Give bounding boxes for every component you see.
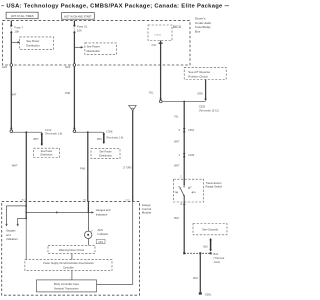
svg-text:See Power: See Power xyxy=(26,39,39,43)
label B41 thermal joint xyxy=(214,252,225,264)
wire from C505 down to TRS xyxy=(183,102,185,179)
svg-text:WHT: WHT xyxy=(33,138,39,141)
svg-text:C551: C551 xyxy=(188,128,195,132)
AFS indicator bulb xyxy=(85,230,93,238)
svg-text:See Grounds: See Grounds xyxy=(202,228,218,232)
wire WHT from E33 down xyxy=(10,67,12,129)
svg-text:Distribution: Distribution xyxy=(26,44,40,48)
junction node xyxy=(87,131,89,133)
svg-text:GRN: GRN xyxy=(197,92,203,95)
svg-text:WHT: WHT xyxy=(11,93,17,97)
see power distribution box (under C312) xyxy=(34,148,60,157)
open circle joint C505 terminal 10 xyxy=(160,100,163,103)
ground joint dashed line xyxy=(184,252,211,254)
wire from C312 drop to gauge module xyxy=(25,132,27,201)
joint line C312 xyxy=(13,131,42,133)
svg-text:2: 2 xyxy=(180,176,182,179)
tap to power distribution C312 xyxy=(41,132,44,146)
arrow to see-power-distribution (right) xyxy=(74,46,83,48)
svg-text:C308: C308 xyxy=(106,130,113,134)
tap to power distribution C308 xyxy=(103,132,106,144)
arrow end xyxy=(10,128,13,130)
wire3 inside gauge module xyxy=(97,201,133,284)
svg-text:E33: E33 xyxy=(2,65,7,69)
svg-text:Distribution: Distribution xyxy=(87,49,101,53)
svg-text:See A/T Reverse: See A/T Reverse xyxy=(188,70,210,74)
svg-text:BLK: BLK xyxy=(193,276,198,280)
svg-text:AFS: AFS xyxy=(98,241,103,244)
svg-text:Distribution: Distribution xyxy=(99,154,112,157)
svg-text:10A: 10A xyxy=(77,29,82,33)
wire bulb to warning circuit xyxy=(87,239,89,246)
svg-text:8: 8 xyxy=(181,202,183,206)
wire from C308 drop to gauge module xyxy=(87,132,89,201)
svg-text:I-CF-B: I-CF-B xyxy=(154,35,161,37)
svg-text:Box: Box xyxy=(195,30,201,34)
ground G501 terminal xyxy=(199,292,202,294)
svg-text:WHT: WHT xyxy=(12,163,18,167)
svg-text:D: D xyxy=(190,187,192,189)
svg-text:Network Transceiver: Network Transceiver xyxy=(54,286,79,290)
svg-text:Indicator: Indicator xyxy=(98,232,109,236)
svg-text:Transmission: Transmission xyxy=(206,181,222,185)
svg-text:WHT: WHT xyxy=(174,165,180,168)
svg-text:F32: F32 xyxy=(152,44,157,47)
svg-text:WHT: WHT xyxy=(174,141,180,144)
junction node xyxy=(183,101,185,103)
see A/T reverse position circuit box xyxy=(184,67,226,79)
svg-text:Indicators: Indicators xyxy=(96,212,108,216)
link warning to power supply xyxy=(71,254,73,260)
connector C551 xyxy=(183,128,186,132)
wire from F32 down to joint C505 xyxy=(160,41,162,100)
svg-text:YEL: YEL xyxy=(149,90,154,94)
wire BLK from TRS down to joint xyxy=(183,202,185,253)
svg-text:G501: G501 xyxy=(205,292,212,296)
fuse F7 wire (vertical, MICU) xyxy=(10,21,12,26)
svg-text:B2: B2 xyxy=(84,199,87,201)
svg-text:YEL: YEL xyxy=(174,115,179,118)
tap up to see-grounds xyxy=(209,238,212,252)
switch arm xyxy=(181,189,184,196)
svg-text:Fuse 21: Fuse 21 xyxy=(77,24,88,28)
svg-text:Range Switch: Range Switch xyxy=(206,185,223,189)
svg-text:C312: C312 xyxy=(45,128,52,132)
AFS tag box xyxy=(96,239,105,244)
branch to gauges arrow 1 xyxy=(5,206,26,227)
wire2 inside gauge module xyxy=(87,201,89,212)
hot-at-all-times box xyxy=(6,12,38,19)
svg-text:PNK: PNK xyxy=(80,166,86,170)
terminal tick TRS pin 8 xyxy=(183,203,186,205)
switch contacts and gear letters xyxy=(175,185,197,195)
svg-text:See Power: See Power xyxy=(99,151,111,154)
svg-text:BLK: BLK xyxy=(174,216,179,220)
svg-text:5: 5 xyxy=(179,129,181,132)
wire1 inside gauge module xyxy=(25,201,27,219)
connector C183 xyxy=(183,153,186,157)
body CAN transceiver box xyxy=(36,280,96,292)
label gauge control module xyxy=(142,203,152,215)
power supply circuit box xyxy=(25,260,112,271)
svg-text:BLK: BLK xyxy=(204,245,209,248)
hot-in-on-and-start box xyxy=(62,13,95,20)
fuse box MICU dashed outline xyxy=(3,21,190,65)
svg-text:LT GRN: LT GRN xyxy=(123,167,132,170)
arrow end of F32 wire xyxy=(159,99,162,101)
svg-text:– USA: Technology Package, CMB: – USA: Technology Package, CMBS/PAX Pack… xyxy=(1,4,229,10)
joint line C505 xyxy=(162,101,206,103)
svg-text:Controller: Controller xyxy=(63,267,74,270)
fuse 21 symbol xyxy=(73,25,75,27)
ground wire BLK down to G501 xyxy=(199,254,201,292)
arrow end xyxy=(73,128,76,130)
svg-text:HOT AT ALL TIMES: HOT AT ALL TIMES xyxy=(11,14,34,18)
svg-text:C183: C183 xyxy=(188,153,195,157)
svg-text:and: and xyxy=(6,233,11,237)
fuse F32 sub-box (dashed, inside MICU) xyxy=(148,25,172,41)
fuse 7 symbol xyxy=(10,25,12,27)
svg-text:MICU: MICU xyxy=(173,25,182,29)
see power distribution box (right) xyxy=(85,43,116,55)
connector E33 circle at MICU exit xyxy=(10,64,13,67)
svg-text:Fuse 7: Fuse 7 xyxy=(14,25,23,29)
terminal stub under F32 box xyxy=(159,43,163,44)
svg-text:HOT IN ON AND START: HOT IN ON AND START xyxy=(64,15,92,18)
see power distribution box (under C308) xyxy=(91,149,120,159)
svg-text:PNK: PNK xyxy=(65,91,71,95)
wire entering TRS top xyxy=(183,178,185,185)
svg-text:10A: 10A xyxy=(14,29,19,33)
option trapezoid source symbol xyxy=(128,105,136,110)
svg-text:Distribution: Distribution xyxy=(41,154,54,157)
svg-text:(Thermal: (Thermal xyxy=(214,256,225,260)
svg-text:(Terminals 10-12): (Terminals 10-12) xyxy=(199,108,219,112)
link power supply to transceiver xyxy=(71,271,73,280)
arrow to see-power-distribution (left) xyxy=(11,41,20,43)
svg-text:Gauges and: Gauges and xyxy=(96,208,111,212)
open circle joint C308 xyxy=(73,130,76,133)
warning drive circuit box xyxy=(48,245,95,253)
open circle joint C312 xyxy=(10,130,13,133)
svg-text:Body Controller Area: Body Controller Area xyxy=(54,282,79,286)
svg-text:Indicators: Indicators xyxy=(6,237,18,241)
svg-text:E34: E34 xyxy=(65,65,70,69)
branch line to indicator xyxy=(26,208,111,216)
svg-text:(Terminals 1-6): (Terminals 1-6) xyxy=(106,135,123,139)
svg-text:Warning Drive Circuit: Warning Drive Circuit xyxy=(59,248,85,252)
svg-text:1: 1 xyxy=(179,153,181,157)
joint line C308 xyxy=(76,131,104,133)
transmission range switch box xyxy=(174,179,204,202)
connector E34 circle at MICU exit xyxy=(73,64,76,67)
svg-text:Power Supply Circuit/Controlle: Power Supply Circuit/Controller Area Net… xyxy=(43,262,94,265)
wire from trapezoid to gauge module xyxy=(132,110,134,201)
svg-text:See Power: See Power xyxy=(87,45,100,49)
svg-text:Module: Module xyxy=(142,211,152,215)
label driver's under-dash fuse/relay box xyxy=(195,17,211,34)
svg-text:Gauges: Gauges xyxy=(6,229,16,233)
joint node squares xyxy=(183,252,185,254)
label gauges and indicators xyxy=(6,229,18,241)
fuse F21 wire (vertical, MICU) xyxy=(73,21,75,26)
junction nodes xyxy=(25,205,27,207)
see power distribution box (left) xyxy=(20,37,54,50)
svg-text:3L: 3L xyxy=(194,192,197,194)
gauge control module box xyxy=(2,201,140,295)
svg-text:(Terminals 1-8): (Terminals 1-8) xyxy=(45,132,62,136)
branch to gauges arrow 2 xyxy=(17,218,27,226)
svg-text:B41: B41 xyxy=(214,252,219,256)
arrow end xyxy=(204,99,207,101)
svg-text:PNK: PNK xyxy=(97,138,102,141)
svg-text:C505: C505 xyxy=(199,104,206,108)
wire from A/T box down xyxy=(205,80,207,100)
junction node xyxy=(25,131,27,133)
wire PNK from E34 down xyxy=(73,67,75,129)
see grounds box xyxy=(193,224,227,235)
svg-text:Joint): Joint) xyxy=(214,260,221,264)
svg-text:Position Circuit: Position Circuit xyxy=(188,75,207,79)
